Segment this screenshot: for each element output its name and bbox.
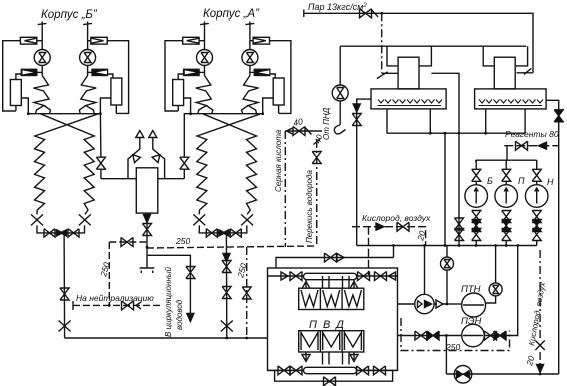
drain X mark left	[31, 214, 43, 225]
wire: lower capsule end drops	[306, 352, 354, 361]
wire: PVD to PTN suction	[398, 303, 415, 305]
PVD outer box	[268, 268, 398, 370]
wire: ejector riser 1 with arrow	[128, 137, 140, 179]
svg-text:250: 250	[175, 236, 190, 246]
valve on circulation line	[186, 267, 195, 279]
arrow up into capsule left	[302, 282, 310, 289]
arrow after booster	[434, 303, 447, 305]
arrow on oxygen line	[376, 223, 384, 230]
arrow on feed	[353, 104, 360, 112]
junction dots on collect	[429, 132, 432, 135]
steam tick deaerator 1	[377, 72, 388, 79]
bottom bypass line	[275, 370, 393, 381]
svg-text:П: П	[518, 176, 525, 186]
steam tick deaerator 2	[524, 68, 531, 74]
valve 1 on corpus A drain	[222, 261, 231, 273]
label Корпус А overlay	[196, 4, 271, 20]
junction dots on header	[392, 244, 395, 247]
arrow up into capsule right	[350, 282, 358, 289]
wire: V1 drop from header	[446, 246, 448, 305]
wire: bottom left drain header	[65, 337, 268, 339]
safety valve box right	[91, 37, 107, 44]
wire: bottom recirculation line	[446, 373, 558, 375]
valve above pump Н	[536, 160, 538, 169]
arrow into heater right	[389, 272, 396, 280]
wire: tank2 outlet right	[546, 100, 559, 374]
arrow on vessel drain	[144, 215, 151, 223]
pump П circle	[495, 185, 518, 208]
X mark on corpus B drain	[59, 321, 71, 332]
angled vent arrow left	[130, 152, 141, 163]
valves below pump Н	[532, 211, 541, 223]
spray nozzles tank 1	[378, 100, 443, 106]
junction dot	[446, 303, 449, 306]
arrow down into bottom capsule left	[302, 355, 310, 362]
M coils lower	[301, 333, 318, 351]
svg-text:Серная кислота: Серная кислота	[274, 129, 283, 192]
PTN pump circle	[462, 293, 486, 317]
arrow on corpus A drain	[223, 254, 230, 262]
valve on vessel drain	[143, 224, 152, 236]
arrow to circulation conduit	[187, 314, 194, 322]
X mark on corpus A drain	[221, 321, 233, 332]
peroxide junction tick	[314, 139, 321, 145]
valve on PEN discharge	[485, 331, 497, 340]
flash vessel	[136, 168, 158, 213]
wire: booster feed from header	[424, 246, 426, 295]
wire: V2 to header	[495, 246, 497, 284]
valve on dashed header	[121, 238, 133, 247]
oxygen branch to PVD	[368, 227, 370, 275]
valves on riser	[455, 218, 464, 230]
valve on right edge line	[554, 110, 563, 122]
wire: PTN discharge	[486, 296, 496, 303]
valve pair top right 2	[375, 272, 387, 281]
deaerator column	[398, 57, 419, 89]
seal tank left	[10, 80, 21, 106]
deaerator tank 2	[475, 89, 546, 109]
dash-dot peroxide line	[316, 140, 318, 246]
junction dot steam	[380, 12, 383, 15]
arrow to bottom line	[537, 365, 544, 373]
svg-text:ПВД: ПВД	[309, 319, 350, 331]
lower heater box	[299, 331, 364, 352]
drain X mark right	[79, 214, 91, 225]
pump Н circle	[525, 185, 548, 208]
drain valve left	[44, 229, 55, 237]
junction dots bottom header	[225, 337, 228, 340]
PEN pump circle	[462, 324, 485, 347]
valve on steam line	[360, 9, 372, 18]
top bypass line	[276, 258, 394, 269]
drain valve right	[68, 229, 79, 237]
labyrinth gland left (upper)	[34, 76, 51, 114]
oxygen dashed line	[352, 227, 426, 246]
upper heater box	[299, 288, 364, 309]
dashed branch to neutralization	[108, 242, 110, 305]
wire: tank1 drops	[387, 109, 430, 133]
flow meter V1	[441, 257, 454, 270]
arrow on reagent line	[539, 142, 547, 149]
wire: suction bracket	[476, 160, 537, 162]
wire: right outer rail	[107, 41, 128, 114]
valves below pump Б	[472, 211, 481, 223]
wire: drain collect line	[387, 132, 526, 134]
pump Б circle	[465, 185, 488, 208]
wire: recirculation drop	[445, 336, 447, 375]
control valve circle right	[80, 50, 96, 66]
pump П unit	[495, 160, 525, 245]
valve 2 on corpus A drain	[222, 287, 231, 299]
dash-dot acid feed line	[284, 131, 286, 247]
svg-text:Пар 13кгс/см2: Пар 13кгс/см2	[308, 2, 367, 12]
valve on peroxide line	[312, 152, 321, 164]
svg-text:Кислород, воздух: Кислород, воздух	[362, 213, 431, 223]
booster pump circle	[415, 294, 434, 313]
valve on drop A	[180, 157, 189, 169]
steam line	[304, 13, 533, 73]
wire: bypass to header	[393, 246, 395, 258]
svg-text:Н: Н	[547, 177, 554, 187]
angled vent arrow right	[152, 152, 163, 163]
tube loop bottom 1	[323, 352, 330, 365]
valve above pump Б	[475, 160, 477, 169]
wire: deaerator 1 feed left	[357, 99, 371, 245]
labyrinth gland right (upper)	[79, 76, 96, 114]
valve on blowdown line	[242, 287, 251, 299]
dashed drain header 250	[109, 241, 147, 243]
wire: drain collect	[37, 225, 85, 233]
valve on feed	[352, 114, 361, 126]
wire: capsule end drops	[306, 280, 354, 289]
wire: left main vertical	[41, 22, 43, 76]
wire: right main vertical	[87, 22, 89, 76]
dash-dot blowdown 250 line	[246, 247, 248, 338]
wire: ejector riser 2 with arrow	[153, 137, 165, 179]
wire: PND riser	[339, 46, 341, 125]
nozzle box left (filled)	[21, 69, 37, 75]
control valve circle left	[34, 50, 50, 66]
svg-text:Реагенты 80: Реагенты 80	[505, 129, 559, 139]
wire: left outer rail	[3, 41, 21, 111]
wire: corpus A drain down	[225, 233, 227, 338]
svg-text:В циркуляционный: В циркуляционный	[164, 266, 173, 337]
wire: drop to PTN feed	[444, 133, 446, 245]
svg-text:Б: Б	[487, 176, 493, 186]
valve pair bottom left	[278, 366, 290, 375]
condenser tube column left	[35, 114, 99, 215]
acid line	[285, 130, 322, 132]
valve on acid line	[293, 127, 305, 136]
wire: corpus B right junction drop	[99, 114, 102, 158]
drain funnel symbol	[140, 255, 155, 273]
wire: to circulation conduit	[147, 255, 190, 315]
svg-text:250: 250	[445, 342, 460, 352]
svg-text:Перекись водорода: Перекись водорода	[305, 170, 314, 243]
dash-dot oxygen drop right	[539, 250, 541, 367]
steam pipe tick right	[83, 23, 92, 24]
valve on corpus B drain	[60, 288, 69, 300]
arrow on top bypass	[337, 254, 344, 262]
valves below pump П	[502, 211, 511, 223]
arrow down into bottom capsule right	[350, 355, 358, 362]
bottom drain line with valves	[268, 369, 398, 371]
safety valve box left	[20, 37, 36, 44]
tube loop bottom 2	[343, 352, 350, 365]
arrow into top collector	[281, 272, 288, 280]
wire: PEN suction from PVD	[398, 335, 462, 337]
svg-text:водовод: водовод	[175, 299, 184, 330]
valve pair on PEN suction	[415, 331, 427, 340]
wire: tank2 drops	[486, 109, 525, 133]
svg-text:Корпус „Б”: Корпус „Б”	[41, 9, 98, 21]
tube loop top 2	[343, 276, 350, 288]
svg-text:На нейтрализацию: На нейтрализацию	[76, 293, 154, 303]
deaerator tank 1	[371, 89, 446, 109]
svg-text:Корпус „А”: Корпус „А”	[203, 8, 260, 20]
wire: corpus A left junction drop	[184, 114, 190, 158]
valve on bottom bypass	[324, 377, 336, 386]
recirculation pump circle	[454, 366, 472, 384]
valve on drop B	[96, 157, 105, 169]
siphon curl От ПНД	[334, 125, 345, 134]
wire: into PTN	[447, 303, 462, 305]
flow meter circle on PND riser	[332, 85, 348, 101]
tube loop top 1	[323, 276, 330, 288]
junction dots casing base	[27, 112, 30, 115]
wire: corpus B drain down	[63, 233, 66, 338]
flow meter V2	[489, 283, 502, 296]
reagent line	[504, 145, 558, 147]
valve above pump П	[505, 160, 507, 169]
X valve on oxygen drop	[535, 341, 544, 351]
column bracket	[387, 46, 431, 66]
svg-text:От ПНД: От ПНД	[322, 107, 331, 140]
dash-dot PEN bypass 250	[401, 318, 510, 351]
wire: reagent drop	[506, 146, 508, 161]
wire: vessel header line	[101, 178, 184, 180]
valve pair top left	[290, 272, 302, 281]
valve pair top right 1	[358, 272, 370, 281]
bottom collector capsule	[304, 367, 357, 373]
top collector capsule	[304, 273, 357, 279]
wire: crossover between units	[431, 73, 459, 245]
valve on reagent line	[516, 141, 528, 150]
valve pair bottom right	[357, 366, 369, 375]
valve on top bypass	[325, 253, 337, 262]
nozzle box right (filled)	[92, 69, 108, 75]
wire: vessel drain	[146, 213, 148, 255]
wire: casing base line	[28, 113, 100, 115]
dashed neutralization line	[73, 304, 160, 306]
dash-dot steam drop to deaerator 1	[381, 13, 383, 73]
valve on neutralization line	[122, 301, 134, 310]
extraction manifold line	[340, 45, 526, 47]
condenser tube column right	[40, 114, 94, 215]
steam pipe tick left	[38, 23, 47, 24]
spray nozzles tank 2	[479, 100, 544, 106]
pump Н unit	[525, 160, 554, 245]
W coils upper	[301, 290, 318, 307]
seal tank right	[111, 78, 122, 105]
top extraction line with valves	[268, 275, 398, 277]
valve on oxygen line	[397, 222, 409, 231]
wire: PEN discharge	[484, 246, 517, 336]
pump Б unit	[465, 160, 493, 245]
wire: suction header	[357, 245, 537, 247]
